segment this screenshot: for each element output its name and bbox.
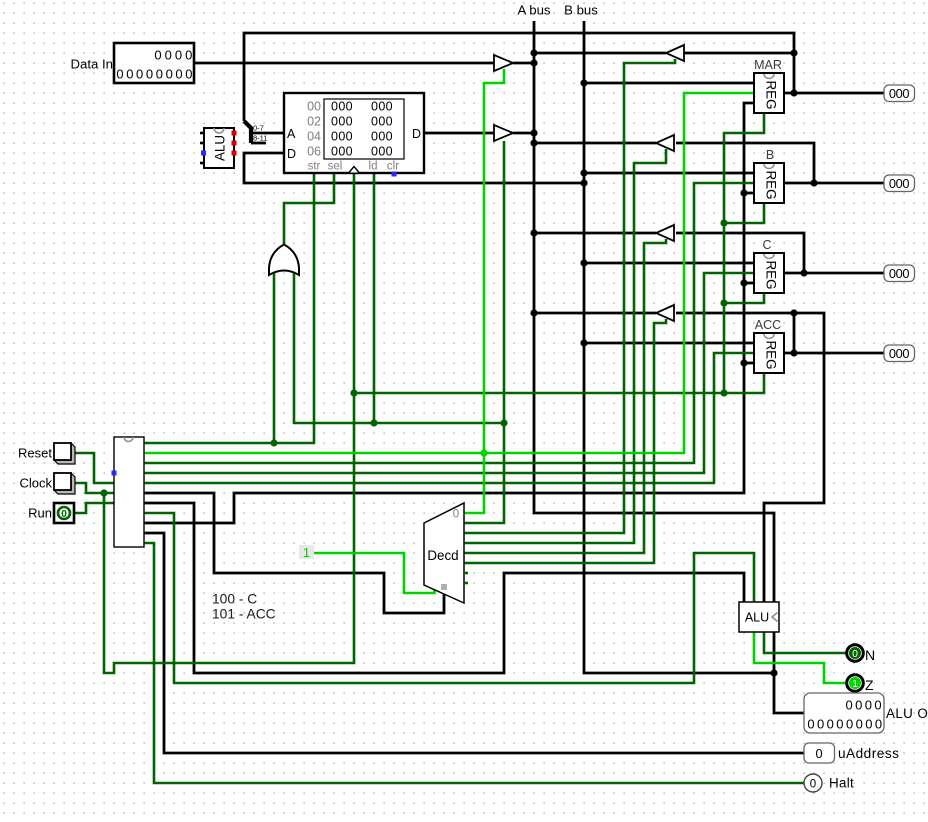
subcircuit ALU (small, unconnected) [200, 128, 237, 168]
svg-text:02: 02 [307, 115, 321, 129]
wire ALU mode net from control [144, 513, 754, 683]
wire RAM D-out to buffer B3 [424, 132, 494, 135]
wire splitter 0-7 to RAM A [251, 132, 284, 135]
input pin "Data In" [70, 43, 194, 83]
svg-text:ld: ld [369, 161, 378, 173]
output pin ALU Out [804, 693, 884, 733]
wire B-reg load net from control [144, 183, 754, 463]
svg-text:ALU: ALU [213, 135, 228, 161]
wire constant 1 to decoder input [314, 553, 435, 593]
svg-text:ALU Out: ALU Out [886, 706, 928, 721]
wire ALU opcode net from control [144, 503, 744, 673]
svg-text:REG: REG [763, 170, 778, 199]
junction A bus [530, 139, 537, 146]
wire Halt net from control [144, 543, 804, 783]
wire buffer B1 enable riser [484, 69, 504, 453]
svg-text:000: 000 [331, 145, 353, 159]
output LED N [847, 645, 864, 662]
svg-text:B bus: B bus [564, 3, 598, 18]
constant 1 [299, 545, 314, 560]
svg-text:MAR: MAR [754, 58, 782, 72]
wire B bus to B-reg D input [584, 172, 754, 175]
junction clock/control [500, 419, 507, 426]
junction clock/control [720, 389, 727, 396]
wire enable stub B-reg [744, 192, 754, 195]
output LED Z [847, 675, 864, 692]
junction [810, 179, 817, 186]
decoder select marker [441, 584, 447, 590]
wire decoder out0 riser [464, 453, 484, 513]
wire MAR load net (high) [144, 93, 754, 453]
buffer B5 (C out to A bus) [656, 225, 674, 241]
wire RAM ld pin drop [373, 173, 376, 423]
svg-text:0: 0 [61, 509, 67, 520]
svg-text:000: 000 [331, 100, 353, 114]
wire B-reg out to pin [784, 182, 884, 185]
svg-text:000: 000 [331, 115, 353, 129]
register B [754, 163, 784, 203]
wire OR-gate input 2 / RAM ld net [294, 272, 504, 423]
svg-text:0: 0 [810, 779, 816, 791]
output pin 000 #2 [884, 175, 915, 192]
wire uAddress net from control [144, 533, 804, 753]
wire B bus to MAR D input [584, 82, 754, 85]
svg-text:0-7: 0-7 [253, 124, 264, 133]
svg-text:N: N [865, 647, 875, 663]
svg-text:clr: clr [387, 161, 399, 173]
wire clock distribution to RAM clk [104, 173, 354, 673]
svg-text:0 0 0 0: 0 0 0 0 [845, 698, 881, 713]
wire DataIn to buffer B1 [194, 62, 494, 65]
wire A bus to buffer B2 tip [534, 52, 666, 55]
svg-text:000: 000 [889, 86, 909, 101]
junction [790, 89, 797, 96]
junction A bus [530, 59, 537, 66]
svg-text:000: 000 [371, 100, 393, 114]
wire A bus and A-bus to ALU [534, 21, 774, 602]
wire Clock button to control [74, 483, 114, 493]
svg-text:0 0 0 0 0 0 0 0: 0 0 0 0 0 0 0 0 [807, 717, 881, 732]
wire ALU N flag to LED [764, 632, 846, 653]
button Clock [54, 473, 75, 494]
wire buffer B1 out to A bus [513, 62, 534, 65]
wire clock stub B-reg clk [724, 203, 764, 223]
svg-text:101 - ACC: 101 - ACC [212, 607, 276, 622]
wire enable stub ACC-reg [744, 362, 754, 365]
wire register-enable net from control [144, 103, 754, 523]
input pin Run [54, 503, 74, 523]
button Reset [54, 443, 75, 464]
junction clock/control [100, 489, 107, 496]
svg-text:B: B [766, 148, 774, 162]
svg-text:Clock: Clock [19, 476, 52, 491]
svg-text:000: 000 [331, 130, 353, 144]
svg-text:A bus: A bus [518, 3, 551, 18]
subcircuit ALU (main) [739, 602, 779, 632]
decoder Decd [424, 503, 468, 603]
buffer B2 (MAR out to A bus) [666, 45, 684, 61]
wire C-reg out to pin [784, 272, 884, 275]
wire decoder-select net from control [144, 493, 444, 613]
junction clock/control [370, 419, 377, 426]
wire ACC out link [793, 313, 796, 353]
wire A bus to buffer B4 tip [534, 142, 656, 145]
svg-text:0 0 0 0: 0 0 0 0 [154, 48, 192, 63]
wire buffer B3 enable from decoder out1 [464, 141, 504, 523]
svg-text:Data In: Data In [70, 57, 113, 72]
svg-text:C: C [762, 238, 771, 252]
svg-text:Run: Run [28, 506, 52, 521]
junction clock/control [350, 389, 357, 396]
svg-text:Z: Z [865, 677, 874, 693]
wire buffer B2 enable from decoder out2 [464, 59, 675, 533]
svg-text:8-11: 8-11 [253, 134, 267, 143]
svg-text:0 0 0 0 0 0 0 0: 0 0 0 0 0 0 0 0 [116, 67, 192, 82]
junction B bus [580, 339, 587, 346]
junction [740, 279, 747, 286]
junction [790, 309, 797, 316]
svg-text:000: 000 [889, 266, 909, 281]
junction MAR-load net [480, 449, 487, 456]
wire B bus down to ALU-out junction [584, 21, 774, 673]
svg-text:REG: REG [763, 340, 778, 369]
junction B bus [580, 169, 587, 176]
svg-text:000: 000 [371, 130, 393, 144]
svg-text:1: 1 [852, 678, 858, 690]
junction A bus [530, 309, 537, 316]
RAM clock marker [349, 167, 359, 173]
svg-text:A: A [287, 127, 296, 141]
svg-text:ALU: ALU [745, 611, 769, 625]
wire C-reg load net from control [144, 273, 754, 473]
svg-text:REG: REG [763, 80, 778, 109]
wire B bus to ACC D input [584, 342, 754, 345]
wire buffer B2 in from MAR-out [684, 52, 794, 55]
svg-text:0: 0 [453, 509, 459, 521]
wire ALU Z flag to LED [754, 632, 846, 683]
wire buffer B5 enable from decoder out4 [464, 239, 666, 553]
svg-text:ACC: ACC [755, 318, 781, 332]
svg-text:0: 0 [852, 648, 858, 660]
register MAR [754, 73, 784, 113]
junction [800, 269, 807, 276]
svg-text:000: 000 [889, 176, 909, 191]
junction clock/control [720, 219, 727, 226]
svg-text:1: 1 [303, 545, 310, 560]
wire clock branch to ACC clk [354, 373, 764, 393]
svg-text:Decd: Decd [427, 548, 458, 563]
svg-text:000: 000 [889, 346, 909, 361]
buffer B6 (ACC out to A bus) [656, 305, 674, 321]
svg-text:Reset: Reset [18, 446, 52, 461]
svg-text:uAddress: uAddress [838, 746, 899, 761]
svg-text:str: str [308, 161, 321, 173]
wire buffer B6 enable from decoder out5 [464, 319, 666, 563]
RAM clr pin (floating, blue) [392, 172, 397, 177]
wire B bus to C-reg D input [584, 262, 754, 265]
output pin Halt [804, 774, 822, 792]
wire RAM D-in loop from B bus [244, 153, 584, 183]
wire clock stub C-reg clk [724, 293, 764, 303]
svg-text:04: 04 [307, 130, 321, 144]
junction A bus [530, 229, 537, 236]
output pin uAddress [804, 743, 835, 763]
svg-text:sel: sel [328, 161, 343, 173]
svg-text:0: 0 [815, 746, 822, 761]
svg-text:D: D [412, 127, 421, 141]
wire buffer B3 out to A bus [513, 132, 534, 135]
svg-text:000: 000 [371, 115, 393, 129]
wire Reset button to control [74, 453, 114, 483]
wire ALU result to ALU-Out pin [774, 602, 804, 713]
svg-text:100 - C: 100 - C [212, 592, 257, 607]
junction A bus [530, 129, 537, 136]
subcircuit control unit [112, 437, 145, 547]
wire MAR-reg out to pin [784, 92, 884, 95]
register ACC [754, 333, 784, 373]
wire buffer B4 enable from decoder out3 [464, 149, 666, 543]
wire clock riser to MAR clk [724, 113, 764, 393]
wire MAR-out to splitter (top loop) [244, 33, 794, 121]
junction clock/control [270, 439, 277, 446]
junction B bus [580, 79, 587, 86]
buffer B3 (RAM D to A bus) [494, 125, 513, 141]
splitter SP1 spine [244, 121, 251, 143]
buffer B1 (DataIn to A bus) [494, 55, 513, 71]
junction [740, 359, 747, 366]
wire Run pin to control [74, 503, 114, 513]
junction B bus [580, 179, 587, 186]
junction [790, 349, 797, 356]
junction A bus [530, 49, 537, 56]
wire OR-gate output to RAM sel [284, 173, 334, 246]
wire ACC-out to buffer B6 and ALU [676, 313, 824, 602]
decoder stub outputs 6,7 [464, 572, 468, 575]
junction B bus [580, 259, 587, 266]
OR gate G1 (inputs from below, output up) [269, 245, 299, 276]
junction [790, 49, 797, 56]
svg-text:000: 000 [371, 145, 393, 159]
svg-text:06: 06 [307, 145, 321, 159]
svg-text:00: 00 [307, 100, 321, 114]
wire RAM str net from control [144, 173, 314, 443]
register C [754, 253, 784, 293]
output pin 000 #3 [884, 265, 915, 282]
buffer B4 (B out to A bus) [656, 135, 674, 151]
svg-text:D: D [287, 147, 296, 161]
wire OR-gate input 1 [273, 272, 276, 443]
RAM block [284, 93, 424, 177]
wire A bus to buffer B6 tip [534, 312, 656, 315]
output pin 000 #4 [884, 345, 915, 362]
wire ACC-reg load net from control [144, 353, 754, 483]
svg-text:REG: REG [763, 260, 778, 289]
wire A bus to buffer B5 tip [534, 232, 656, 235]
junction [740, 189, 747, 196]
wire buffer B5 in from C-reg out [676, 233, 804, 273]
output pin 000 #1 [884, 85, 915, 102]
wire splitter 8-11 stub [251, 142, 266, 145]
svg-text:Halt: Halt [829, 776, 854, 791]
wire buffer B4 in from B-reg out [676, 143, 814, 183]
junction [770, 669, 777, 676]
wire ACC-reg out to pin [784, 352, 884, 355]
wire enable stub C-reg [744, 282, 754, 285]
junction clock/control [720, 299, 727, 306]
